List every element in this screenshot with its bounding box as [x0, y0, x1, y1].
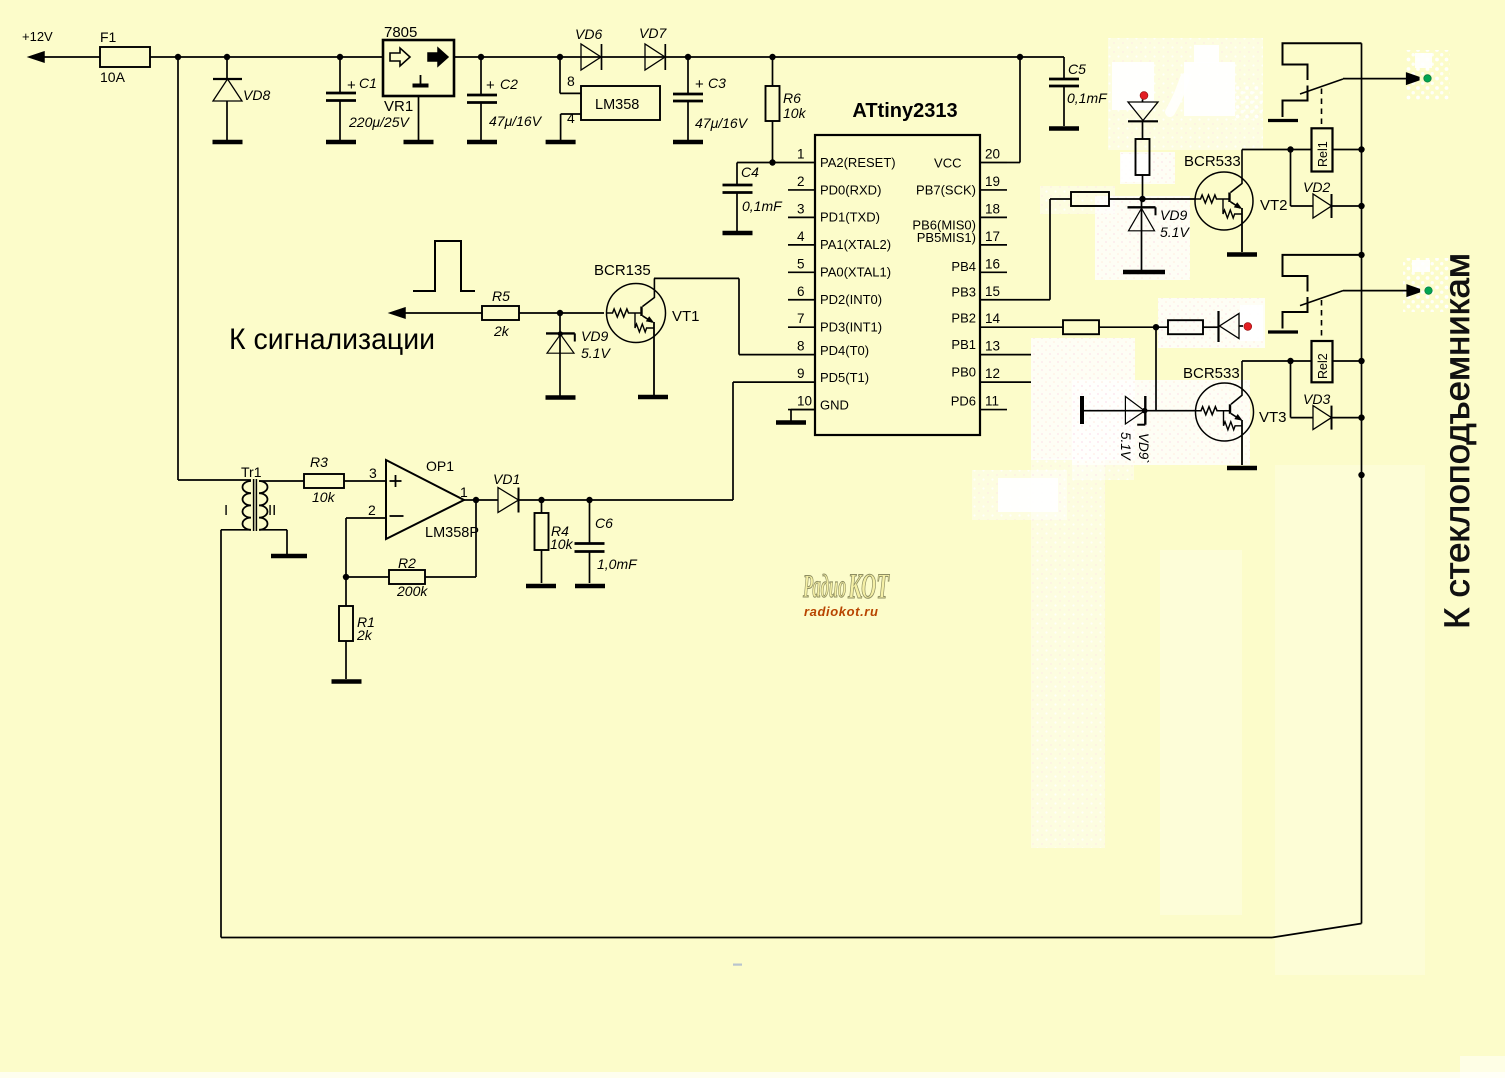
- svg-text:200k: 200k: [396, 583, 428, 599]
- wire F1 to regulator: [150, 56, 383, 58]
- resistor R6: [766, 54, 807, 162]
- svg-text:PA2(RESET): PA2(RESET): [820, 155, 896, 170]
- ground for VR1: [404, 140, 434, 145]
- svg-text:Rel1: Rel1: [1316, 141, 1330, 167]
- svg-text:2: 2: [797, 174, 805, 189]
- svg-text:10k: 10k: [550, 536, 574, 552]
- svg-text:VD6: VD6: [575, 26, 602, 42]
- pin 5 PA0(XTAL1): [788, 256, 891, 279]
- svg-text:C5: C5: [1068, 61, 1086, 77]
- transformer Tr1: [224, 464, 276, 531]
- base resistor 1 for VT3: [1063, 320, 1168, 334]
- ground for LM358 pin4: [546, 140, 576, 145]
- svg-text:PB3: PB3: [951, 284, 976, 299]
- capacitor C5: [1017, 54, 1108, 126]
- svg-text:47μ/16V: 47μ/16V: [695, 115, 749, 131]
- svg-text:5.1V: 5.1V: [1160, 224, 1190, 240]
- resistor R2: [343, 555, 429, 599]
- wire Tr1 to R3: [259, 480, 304, 482]
- resistor R3: [304, 454, 386, 505]
- wire VCC pin20 to rail: [1007, 57, 1020, 163]
- wire OP1 output: [464, 497, 498, 503]
- wire VT3 collector to Rel2: [1242, 358, 1312, 364]
- wire +12V rail down to Tr1: [178, 57, 251, 480]
- svg-text:C1: C1: [359, 75, 377, 91]
- svg-text:VD1: VD1: [493, 471, 520, 487]
- indicator LED red at VT2: [1128, 92, 1158, 199]
- svg-text:R2: R2: [398, 555, 416, 571]
- svg-text:C6: C6: [595, 515, 613, 531]
- pin 4 PA1(XTAL2): [788, 229, 891, 252]
- svg-text:BCR533: BCR533: [1184, 153, 1241, 170]
- relay coil Rel2: [1312, 341, 1362, 382]
- node arrow to alarm: [390, 308, 482, 318]
- svg-text:OP1: OP1: [426, 458, 454, 474]
- ground for C3: [673, 140, 703, 145]
- svg-text:PD2(INT0): PD2(INT0): [820, 292, 882, 307]
- svg-text:VT2: VT2: [1260, 197, 1288, 214]
- capacitor C4: [723, 163, 784, 232]
- svg-text:VD2: VD2: [1303, 179, 1330, 195]
- svg-text:VCC: VCC: [934, 156, 961, 171]
- svg-text:8: 8: [567, 73, 575, 89]
- ground for VT1 emitter: [638, 395, 668, 400]
- series resistor 2 with LED: [1168, 320, 1219, 334]
- wire Tr1 secondary to ground: [259, 530, 287, 554]
- svg-text:VD7: VD7: [639, 25, 667, 41]
- pin 1 PA2(RESET): [797, 147, 896, 170]
- svg-text:BCR135: BCR135: [594, 262, 651, 279]
- resistor R5: [482, 288, 604, 339]
- svg-text:2: 2: [368, 502, 376, 518]
- wire regulator output rail: [455, 56, 1064, 58]
- svg-text:15: 15: [985, 284, 1000, 299]
- svg-text:5: 5: [797, 256, 805, 271]
- pin 8 PD4(T0): [788, 339, 869, 359]
- junction to transformer branch: [175, 54, 181, 60]
- relay contact SW1: [1268, 43, 1362, 128]
- base resistor for VT2: [1071, 192, 1195, 206]
- svg-text:220μ/25V: 220μ/25V: [348, 114, 410, 130]
- fuse F1: [100, 29, 150, 85]
- svg-text:10k: 10k: [783, 105, 807, 121]
- diode VD8: [213, 54, 270, 140]
- svg-text:+: +: [347, 77, 356, 94]
- svg-text:PD4(T0): PD4(T0): [820, 343, 869, 358]
- pin 3 PD1(TXD): [788, 201, 880, 224]
- zener VD9 at VT2: [1128, 199, 1191, 270]
- svg-text:18: 18: [985, 201, 1000, 216]
- node output arrow 1 with green dot: [1343, 73, 1431, 84]
- svg-text:19: 19: [985, 174, 1000, 189]
- svg-text:16: 16: [985, 256, 1000, 271]
- pin 2 PD0(RXD): [788, 174, 881, 197]
- svg-text:ATtiny2313: ATtiny2313: [852, 100, 957, 122]
- svg-text:8: 8: [797, 339, 805, 354]
- svg-text:PB5MIS1): PB5MIS1): [917, 230, 976, 245]
- pin 16 PB4: [951, 256, 1007, 274]
- svg-text:+: +: [695, 76, 704, 93]
- ground for C1: [326, 140, 356, 145]
- svg-text:КОТ: КОТ: [847, 567, 889, 606]
- pin 20 VCC: [934, 147, 1007, 171]
- node +12V input arrow: [22, 29, 100, 62]
- svg-text:4: 4: [797, 229, 805, 244]
- capacitor C3: [673, 54, 749, 140]
- svg-text:+12V: +12V: [22, 29, 53, 44]
- wire R6 to MCU pin 1: [773, 162, 816, 164]
- pin 13 PB1: [951, 337, 1031, 355]
- op-amp OP1 LM358P: [368, 458, 479, 541]
- svg-text:10: 10: [797, 394, 812, 409]
- ground for R1: [332, 679, 362, 684]
- pin 18 PB6(MIS0): [912, 201, 1007, 232]
- svg-text:LM358P: LM358P: [425, 525, 479, 541]
- svg-text:PB7(SCK): PB7(SCK): [916, 182, 976, 197]
- svg-text:PA0(XTAL1): PA0(XTAL1): [820, 265, 891, 280]
- svg-text:F1: F1: [100, 29, 117, 45]
- node pin1 junction: [769, 159, 775, 165]
- svg-text:14: 14: [985, 311, 1001, 326]
- svg-text:7805: 7805: [384, 24, 417, 41]
- svg-text:К сигнализации: К сигнализации: [229, 323, 435, 356]
- svg-text:PD3(INT1): PD3(INT1): [820, 320, 882, 335]
- svg-text:3: 3: [369, 465, 377, 481]
- diode VD6: [575, 26, 602, 70]
- svg-text:R6: R6: [783, 90, 801, 106]
- pin 15 PB3: [951, 284, 1007, 300]
- capacitor C2: [467, 54, 543, 140]
- resistor R1: [339, 577, 375, 679]
- svg-text:R5: R5: [492, 288, 510, 304]
- svg-text:PD5(T1): PD5(T1): [820, 370, 869, 385]
- pin 9 PD5(T1): [788, 366, 869, 385]
- svg-text:VD9: VD9: [581, 328, 608, 344]
- svg-text:C4: C4: [741, 164, 759, 180]
- capacitor C6: [575, 497, 639, 583]
- svg-text:PB0: PB0: [951, 365, 976, 380]
- wire down to VT3 base: [1155, 327, 1157, 411]
- svg-text:PD6: PD6: [951, 394, 976, 409]
- svg-text:1: 1: [797, 147, 805, 162]
- svg-text:12: 12: [985, 366, 1000, 381]
- svg-text:9: 9: [797, 366, 805, 381]
- svg-text:VT3: VT3: [1259, 409, 1287, 426]
- ground for Tr1 secondary: [271, 554, 307, 559]
- svg-text:К стеклоподъемникам: К стеклоподъемникам: [1438, 253, 1477, 629]
- op-amp supply LM358 box: [557, 54, 660, 140]
- diode VD3: [1291, 361, 1362, 430]
- svg-text:10k: 10k: [312, 489, 336, 505]
- svg-text:6: 6: [797, 284, 805, 299]
- svg-text:47μ/16V: 47μ/16V: [489, 113, 543, 129]
- svg-text:VD3: VD3: [1303, 391, 1330, 407]
- watermark RadioKOT: [802, 567, 889, 619]
- pin 7 PD3(INT1): [788, 311, 882, 334]
- svg-text:VD8: VD8: [243, 87, 270, 103]
- resistor R4: [535, 497, 574, 583]
- svg-text:PB1: PB1: [951, 337, 976, 352]
- pin 17 PB5MIS1): [917, 229, 1007, 245]
- voltage regulator VR1 7805: [383, 24, 454, 140]
- svg-text:radiokot.ru: radiokot.ru: [804, 604, 879, 619]
- svg-text:VD9`: VD9`: [1136, 433, 1151, 464]
- diode VD7: [639, 25, 667, 70]
- svg-text:C3: C3: [708, 75, 726, 91]
- svg-text:PD1(TXD): PD1(TXD): [820, 210, 880, 225]
- svg-text:5.1V: 5.1V: [581, 345, 611, 361]
- ground for VD9 at VT2: [1123, 270, 1165, 275]
- capacitor C1: [326, 54, 410, 140]
- zener VD9 at VT1: [546, 313, 611, 396]
- svg-text:VD9: VD9: [1160, 207, 1187, 223]
- indicator LED red at VT3: [1219, 311, 1252, 342]
- pin 12 PB0: [951, 365, 1031, 383]
- pin 10 GND: [788, 394, 849, 413]
- svg-text:Радио: Радио: [802, 568, 846, 605]
- microcontroller ATtiny2313: [815, 100, 980, 435]
- pin 19 PB7(SCK): [916, 174, 1007, 198]
- wire inverting input: [346, 518, 386, 577]
- svg-text:7: 7: [797, 311, 805, 326]
- ground for VT3 emitter: [1227, 466, 1257, 471]
- svg-text:PA1(XTAL2): PA1(XTAL2): [820, 237, 891, 252]
- svg-text:+: +: [486, 77, 495, 94]
- pulse waveform symbol: [413, 241, 475, 291]
- svg-text:R3: R3: [310, 454, 328, 470]
- svg-text:10A: 10A: [100, 69, 126, 85]
- ground for C2: [467, 140, 497, 145]
- wire right bus: [1358, 43, 1364, 923]
- pin 11 PD6: [951, 394, 1007, 410]
- diode VD2: [1291, 150, 1362, 219]
- ground for R4: [526, 584, 556, 589]
- svg-text:C2: C2: [500, 76, 518, 92]
- svg-text:4: 4: [567, 110, 575, 126]
- svg-text:20: 20: [985, 147, 1000, 162]
- feedback wire to R2: [425, 500, 476, 577]
- node output arrow 2 with green dot: [1343, 285, 1432, 296]
- transistor VT3 BCR533: [1183, 361, 1287, 465]
- transistor VT1 BCR135: [594, 262, 700, 395]
- wire VT2 collector to Rel1: [1242, 146, 1312, 152]
- pin 6 PD2(INT0): [788, 284, 882, 307]
- wire bottom return: [221, 924, 1362, 938]
- wire Tr1 primary return: [221, 530, 251, 938]
- relay coil Rel1: [1312, 128, 1362, 171]
- ground for C6: [575, 584, 605, 589]
- svg-text:PB4: PB4: [951, 259, 976, 274]
- svg-text:17: 17: [985, 229, 1000, 244]
- svg-text:VT1: VT1: [672, 308, 700, 325]
- transistor VT2 BCR533: [1184, 150, 1288, 253]
- svg-text:2k: 2k: [493, 323, 510, 339]
- svg-text:2k: 2k: [356, 627, 373, 643]
- svg-text:VR1: VR1: [384, 98, 413, 115]
- pin 14 PB2: [951, 311, 1007, 328]
- wire pin 15 to base resistor: [1007, 199, 1071, 300]
- svg-text:1: 1: [460, 484, 468, 500]
- relay contact SW2: [1268, 255, 1362, 341]
- wire VT1 collector to pin 8: [654, 278, 788, 354]
- svg-text:Tr1: Tr1: [241, 464, 262, 480]
- svg-text:11: 11: [985, 394, 999, 409]
- svg-text:PD0(RXD): PD0(RXD): [820, 182, 881, 197]
- zener VD9 at VT3: [1082, 396, 1196, 464]
- ground for MCU pin10: [776, 410, 815, 423]
- svg-text:I: I: [224, 502, 228, 519]
- svg-text:0,1mF: 0,1mF: [1067, 90, 1108, 106]
- stray mark: [733, 964, 742, 966]
- ground for VT2 emitter: [1227, 252, 1257, 257]
- svg-text:5.1V: 5.1V: [1118, 432, 1133, 462]
- svg-text:PB2: PB2: [951, 311, 976, 326]
- svg-text:0,1mF: 0,1mF: [742, 198, 783, 214]
- ground for C4: [723, 231, 753, 236]
- svg-text:13: 13: [985, 339, 1000, 354]
- ground for VD9: [546, 395, 576, 400]
- svg-text:II: II: [268, 502, 276, 519]
- svg-text:BCR533: BCR533: [1183, 365, 1240, 382]
- svg-text:Rel2: Rel2: [1316, 353, 1330, 379]
- wire OP1 output to pin 9: [733, 382, 788, 500]
- ground for C5: [1049, 126, 1079, 131]
- svg-text:GND: GND: [820, 398, 849, 413]
- ground for VD8: [213, 140, 243, 145]
- wire pin 14 to resistors: [1007, 326, 1063, 328]
- svg-text:LM358: LM358: [595, 97, 639, 113]
- svg-text:1,0mF: 1,0mF: [597, 556, 638, 572]
- svg-text:3: 3: [797, 201, 805, 216]
- diode VD1: [493, 471, 733, 513]
